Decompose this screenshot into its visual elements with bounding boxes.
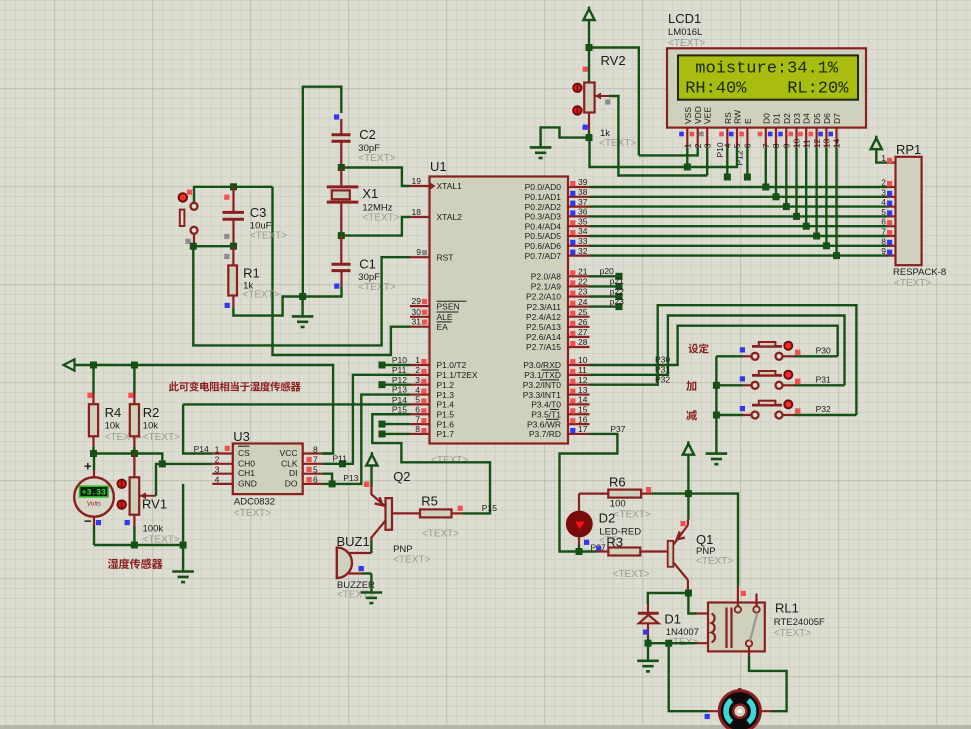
svg-text:<TEXT>: <TEXT>	[613, 569, 650, 580]
wire ADC GND riser and ground	[182, 484, 184, 571]
svg-text:CS: CS	[238, 448, 250, 458]
svg-text:D1: D1	[772, 113, 782, 124]
wire junction to XTAL2 pin	[341, 217, 410, 236]
svg-text:P2.1/A9: P2.1/A9	[531, 282, 562, 292]
ground symbol below buzzer	[361, 593, 383, 604]
svg-text:16: 16	[578, 414, 588, 424]
wire P0.0-P0.7 data bus rows from U1 to RP1	[590, 187, 888, 256]
label SET (Chinese)	[688, 343, 708, 353]
svg-text:Q2: Q2	[393, 469, 410, 484]
svg-text:<TEXT>: <TEXT>	[431, 455, 468, 466]
svg-text:U3: U3	[233, 429, 250, 444]
svg-text:CH1: CH1	[238, 468, 255, 478]
svg-text:P3.5/T1: P3.5/T1	[531, 409, 561, 419]
svg-text:27: 27	[578, 327, 588, 337]
svg-text:RV2: RV2	[601, 53, 626, 68]
wire LCD VSS rail (pin1+pin5 RW) to RV2 bottom junction	[589, 138, 737, 167]
svg-text:P2.0/A8: P2.0/A8	[531, 272, 562, 282]
svg-text:P1.3: P1.3	[437, 390, 455, 400]
svg-text:9: 9	[881, 246, 886, 256]
wire LCD RS pin4 to terminal P10	[726, 148, 728, 177]
node junction C1/ground/riser	[299, 293, 306, 300]
svg-text:21: 21	[578, 267, 588, 277]
svg-text:6: 6	[415, 404, 420, 414]
LCD screen with moisture readout	[678, 55, 858, 99]
svg-text:XTAL1: XTAL1	[437, 181, 463, 191]
annotation: variable resistor acts as humidity sensor	[169, 381, 301, 391]
svg-text:P13: P13	[392, 385, 407, 395]
wire P3.2 to MINUS button (net P32)	[590, 305, 857, 415]
wire C1C2 ground riser (C2 top loop)	[303, 87, 342, 297]
svg-text:ALE: ALE	[437, 312, 453, 322]
svg-text:P1.7: P1.7	[437, 429, 455, 439]
svg-text:+3.33: +3.33	[82, 489, 106, 498]
svg-text:P13: P13	[343, 473, 358, 483]
svg-text:P2.3/A11: P2.3/A11	[527, 302, 562, 312]
svg-text:P0.6/AD6: P0.6/AD6	[525, 241, 562, 251]
svg-text:7: 7	[415, 414, 420, 424]
svg-text:P31: P31	[816, 374, 831, 384]
crystal X1	[327, 168, 359, 235]
svg-text:P10: P10	[715, 142, 725, 157]
svg-text:8: 8	[881, 236, 886, 246]
svg-text:ADC0832: ADC0832	[234, 497, 275, 508]
wire divider row R4-R2-CH0	[94, 454, 163, 464]
svg-text:R1: R1	[243, 266, 260, 281]
svg-text:1: 1	[415, 355, 420, 365]
svg-text:X1: X1	[362, 186, 378, 201]
svg-text:<TEXT>: <TEXT>	[143, 432, 180, 443]
wire ADC CLK to P1.1 (net P11)	[322, 375, 410, 464]
svg-text:2: 2	[881, 178, 886, 188]
svg-text:RST: RST	[437, 252, 454, 262]
svg-text:p21: p21	[610, 276, 624, 286]
svg-text:23: 23	[578, 287, 588, 297]
node junction R2 bottom / RV1 top	[131, 450, 138, 457]
diode D1 (1N4007)	[638, 604, 659, 644]
svg-text:P11: P11	[392, 365, 407, 375]
wire RV2 bottom to VSS rail junction	[588, 131, 590, 138]
ADC U3 (ADC0832) body	[233, 444, 303, 495]
svg-text:15: 15	[578, 404, 588, 414]
node junction C3 bottom / switch bottom / R1 top	[230, 243, 237, 250]
svg-text:RS: RS	[723, 112, 733, 124]
wire P1.6 stub with terminal	[382, 423, 410, 425]
svg-text:XTAL2: XTAL2	[437, 212, 463, 222]
potentiometer RV1	[117, 454, 156, 546]
svg-text:R2: R2	[143, 405, 160, 420]
svg-text:P10: P10	[392, 355, 407, 365]
svg-text:C1: C1	[359, 257, 376, 272]
svg-text:<TEXT>: <TEXT>	[422, 529, 459, 540]
svg-text:17: 17	[578, 424, 588, 434]
svg-text:E: E	[743, 118, 753, 124]
svg-text:13: 13	[822, 138, 832, 148]
resistor R3	[579, 548, 668, 556]
svg-text:1: 1	[683, 143, 693, 148]
svg-text:P2.6/A14: P2.6/A14	[526, 332, 561, 342]
wire ADC DI drop to DO net	[322, 474, 332, 484]
label MINUS (Chinese)	[686, 410, 697, 421]
svg-text:<TEXT>: <TEXT>	[894, 278, 931, 289]
ground symbol below C1	[292, 316, 314, 327]
svg-text:P0.2/AD2: P0.2/AD2	[525, 202, 562, 212]
svg-text:12: 12	[812, 138, 822, 148]
svg-text:D4: D4	[802, 113, 812, 124]
wire P3.0 to SET button (net P30)	[590, 326, 838, 365]
svg-text:P15: P15	[482, 503, 497, 513]
svg-text:4: 4	[215, 475, 220, 485]
svg-text:RP1: RP1	[896, 142, 921, 157]
svg-text:19: 19	[412, 176, 422, 186]
capacitor C1	[332, 236, 351, 289]
svg-text:RW: RW	[733, 110, 743, 124]
svg-text:8: 8	[415, 424, 420, 434]
node junction CH0 tap	[159, 460, 166, 467]
LCD LCD1 body	[667, 48, 866, 127]
svg-text:P2.4/A12: P2.4/A12	[526, 312, 561, 322]
node junction bottom net to ground riser	[180, 542, 187, 549]
svg-text:R3: R3	[606, 535, 623, 550]
svg-text:P11: P11	[333, 454, 348, 464]
svg-text:6: 6	[881, 217, 886, 227]
node junction RV2 bottom / VSS rail / ground jog	[586, 134, 593, 141]
svg-text:<TEXT>: <TEXT>	[242, 290, 279, 301]
svg-text:5: 5	[732, 143, 742, 148]
svg-text:7: 7	[881, 227, 886, 237]
wire R1 bottom jog to C1/ground junction	[233, 297, 302, 316]
svg-text:P37: P37	[610, 424, 625, 434]
svg-text:35: 35	[578, 216, 588, 226]
wires LCD D0-D7 drops onto bus with junctions	[762, 148, 840, 260]
svg-text:100k: 100k	[143, 524, 164, 535]
svg-text:<TEXT>: <TEXT>	[358, 282, 395, 293]
node junction D2 bottom / P37 / R3	[576, 548, 583, 555]
U3 pin stubs numbers and names	[212, 444, 322, 488]
wire ADC DO to P1.3 (net P13)	[322, 395, 410, 484]
svg-text:<TEXT>: <TEXT>	[774, 628, 811, 639]
resistor pack RP1 body	[896, 157, 922, 265]
resistor R5	[420, 506, 463, 518]
wire P1.0 stub with terminal	[382, 364, 410, 366]
svg-text:1: 1	[881, 153, 886, 163]
svg-text:D0: D0	[761, 113, 771, 124]
node junction RV1 bottom at bottom net	[131, 542, 138, 549]
wire sensor supply rail to ADC VCC	[75, 365, 334, 454]
svg-text:2: 2	[693, 143, 703, 148]
push button SET 设定	[716, 342, 837, 360]
svg-text:D5: D5	[812, 113, 822, 124]
node junction motor branch	[665, 640, 672, 647]
svg-text:PNP: PNP	[393, 544, 413, 555]
svg-text:D6: D6	[822, 113, 832, 124]
svg-text:7: 7	[313, 455, 318, 465]
resistor R6	[579, 487, 688, 498]
power symbol VCC (top, feeds RV2/VDD)	[583, 7, 594, 21]
wire P1.5 route to R5 (net P15)	[372, 414, 490, 513]
wire VCC arrow stem down to junction	[588, 20, 590, 48]
svg-text:Volts: Volts	[87, 501, 102, 508]
svg-text:P0.5/AD5: P0.5/AD5	[525, 231, 562, 241]
svg-text:LCD1: LCD1	[668, 11, 701, 26]
svg-text:11: 11	[801, 139, 811, 148]
wire switch bottom down to RST rail	[193, 246, 410, 345]
svg-text:5: 5	[415, 395, 420, 405]
svg-text:33: 33	[578, 236, 588, 246]
svg-text:BUZ1: BUZ1	[337, 534, 370, 549]
svg-text:11: 11	[578, 365, 587, 375]
wire junction to XTAL1 pin	[341, 168, 410, 187]
svg-text:RV1: RV1	[142, 497, 167, 512]
buzzer BUZ1	[337, 548, 372, 578]
svg-text:28: 28	[578, 337, 588, 347]
LCD pin stubs 1-14 with state squares and pin numbers	[679, 128, 842, 149]
svg-text:18: 18	[412, 207, 422, 217]
svg-text:P2.7/A15: P2.7/A15	[526, 342, 561, 352]
wire buzzer to ground	[370, 574, 372, 593]
svg-text:P2.2/A10: P2.2/A10	[526, 292, 561, 302]
wire P3.7 route to D2/R3 (net P37)	[560, 434, 618, 552]
svg-text:<TEXT>: <TEXT>	[234, 508, 271, 519]
wire LCD VEE pin3 down to contrast rail	[706, 148, 708, 176]
wire power arrow to Q2 emitter	[370, 466, 372, 488]
svg-text:4: 4	[881, 197, 886, 207]
capacitor C3	[223, 187, 245, 244]
node junction C2/X1/XTAL1	[338, 164, 345, 171]
terminal arrow (left rail)	[64, 359, 75, 370]
resistor R1	[224, 246, 237, 308]
svg-text:38: 38	[578, 187, 588, 197]
svg-text:5: 5	[881, 207, 886, 217]
resistor R2	[128, 365, 139, 454]
svg-text:P0.1/AD1: P0.1/AD1	[525, 192, 562, 202]
svg-text:PSEN: PSEN	[437, 301, 460, 311]
svg-text:D1: D1	[664, 612, 681, 627]
svg-text:D7: D7	[832, 113, 842, 124]
svg-text:6: 6	[313, 475, 318, 485]
node junction D1 anode / ground / motor return	[645, 640, 652, 647]
wire P1.2 stub with terminal	[382, 384, 410, 386]
wire button common vertical to ground	[715, 356, 717, 453]
svg-text:24: 24	[578, 297, 588, 307]
wire Q2 collector to buzzer	[370, 541, 372, 553]
svg-text:<TEXT>: <TEXT>	[250, 231, 287, 242]
svg-text:1: 1	[215, 444, 220, 454]
svg-text:P0.3/AD3: P0.3/AD3	[525, 212, 562, 222]
svg-text:31: 31	[412, 317, 422, 327]
svg-text:p20: p20	[600, 266, 614, 276]
svg-text:D2: D2	[782, 113, 792, 124]
svg-text:P0.7/AD7: P0.7/AD7	[525, 251, 562, 261]
relay RL1 body and coil	[697, 586, 765, 656]
wires P2.0-P2.3 stubs with terminals (nets p20-p23)	[590, 273, 623, 310]
svg-text:CLK: CLK	[281, 458, 298, 468]
svg-text:34: 34	[578, 226, 588, 236]
ground symbol below RV1 area	[172, 572, 194, 583]
svg-text:DO: DO	[285, 478, 298, 488]
node junction X1/C1/XTAL2	[338, 232, 345, 239]
svg-text:R5: R5	[421, 494, 438, 509]
svg-text:p22: p22	[610, 286, 624, 296]
svg-text:12: 12	[578, 375, 588, 385]
svg-text:C3: C3	[250, 205, 267, 220]
svg-text:P1.2: P1.2	[437, 380, 455, 390]
wire D1 junction to ground	[647, 643, 649, 660]
svg-text:2: 2	[215, 455, 220, 465]
svg-text:P3.4/T0: P3.4/T0	[531, 400, 561, 410]
node junction switch bottom	[190, 243, 197, 250]
svg-text:2: 2	[415, 365, 420, 375]
svg-text:EA: EA	[437, 322, 449, 332]
svg-text:P3.7/RD: P3.7/RD	[529, 429, 561, 439]
svg-text:P3.2/INT0: P3.2/INT0	[523, 380, 562, 390]
wire RV2 wiper to LCD VEE rail	[609, 96, 707, 176]
svg-text:37: 37	[578, 197, 588, 207]
wire bottom net voltmeter- / RV1 bottom / ADC GND	[94, 544, 183, 546]
wire VCC junction right and down to LCD VDD rail riser	[589, 48, 639, 156]
svg-text:30: 30	[412, 307, 422, 317]
svg-text:8: 8	[313, 444, 318, 454]
svg-text:D3: D3	[792, 113, 802, 124]
svg-text:P1.6: P1.6	[437, 419, 455, 429]
power symbol for RP1 pin1	[871, 136, 882, 150]
svg-text:3: 3	[881, 187, 886, 197]
svg-text:<TEXT>: <TEXT>	[614, 510, 651, 521]
svg-text:P1.1/T2EX: P1.1/T2EX	[437, 370, 478, 380]
label PLUS (Chinese)	[686, 381, 696, 391]
wire junction down to ground	[301, 297, 303, 317]
svg-text:P1.5: P1.5	[437, 409, 455, 419]
label humidity sensor (Chinese)	[108, 558, 163, 569]
node junction R4 top	[90, 362, 97, 369]
svg-text:36: 36	[578, 207, 588, 217]
svg-text:14: 14	[578, 395, 588, 405]
svg-text:29: 29	[412, 296, 422, 306]
ground symbol near RV2	[530, 147, 552, 158]
voltmeter (+3.33 Volts)	[74, 454, 114, 546]
svg-text:6: 6	[743, 143, 753, 148]
svg-text:U1: U1	[430, 159, 447, 174]
node junction R4 bottom	[90, 450, 97, 457]
svg-text:<TEXT>: <TEXT>	[362, 213, 399, 224]
microcontroller U1 (8051) body	[430, 177, 569, 444]
svg-text:P0.0/AD0: P0.0/AD0	[525, 182, 562, 192]
wire LCD E pin6 to terminal P12	[746, 148, 748, 177]
svg-text:DI: DI	[289, 468, 298, 478]
svg-text:10k: 10k	[105, 421, 121, 432]
wire P1.4 long rail to ADC CS	[183, 403, 410, 405]
svg-text:P30: P30	[816, 345, 831, 355]
wire RP1 pin1 to power arrow	[876, 149, 887, 163]
svg-text:100: 100	[610, 499, 626, 510]
motor	[708, 689, 771, 729]
svg-text:P3.1/TXD: P3.1/TXD	[524, 370, 561, 380]
potentiometer RV2	[573, 48, 610, 132]
wire C1 bottom to ground junction	[303, 286, 342, 296]
svg-text:26: 26	[578, 317, 588, 327]
wire junction down to relay coil pin 1	[688, 593, 696, 614]
LED D2 (LED-RED)	[566, 494, 592, 552]
push switch (reset) with actuator	[179, 190, 198, 244]
node junction VSS pin1	[684, 164, 691, 171]
LCD pin names (vertical)	[683, 106, 842, 124]
resistor R4	[87, 365, 98, 454]
svg-text:moisture:34.1%: moisture:34.1%	[695, 59, 839, 78]
svg-text:VDD: VDD	[693, 106, 703, 124]
svg-text:14: 14	[832, 138, 842, 148]
svg-text:3: 3	[415, 375, 420, 385]
svg-text:P1.4: P1.4	[437, 400, 455, 410]
capacitor C2	[332, 114, 351, 166]
svg-text:GND: GND	[238, 478, 257, 488]
transistor Q2 (PNP)	[371, 486, 420, 542]
svg-text:CH0: CH0	[238, 458, 255, 468]
svg-text:R4: R4	[105, 405, 122, 420]
wire LCD VDD pin2 to VCC riser	[639, 148, 698, 156]
wire CH0 tap to ADC CH0 pin	[156, 464, 212, 496]
power symbol for Q1/R6 rail	[683, 441, 694, 455]
svg-text:+: +	[84, 459, 92, 474]
svg-text:RL1: RL1	[775, 601, 799, 616]
ground symbol below D1	[637, 661, 659, 672]
svg-text:P12: P12	[392, 375, 407, 385]
power symbol for Q2 emitter	[366, 452, 377, 466]
svg-text:Q1: Q1	[696, 532, 713, 547]
svg-text:9: 9	[782, 143, 792, 148]
svg-text:VSS: VSS	[683, 107, 693, 124]
svg-text:P3.0/RXD: P3.0/RXD	[523, 360, 561, 370]
svg-text:−: −	[84, 514, 92, 529]
svg-text:RH:40% RL:20%: RH:40% RL:20%	[685, 80, 849, 99]
svg-text:P3.3/INT1: P3.3/INT1	[523, 390, 562, 400]
transistor Q1 (PNP)	[668, 520, 688, 590]
svg-text:10k: 10k	[143, 421, 159, 432]
svg-text:P14: P14	[194, 444, 209, 454]
svg-text:RESPACK-8: RESPACK-8	[893, 267, 946, 278]
svg-text:LM016L: LM016L	[668, 27, 702, 38]
svg-text:VCC: VCC	[280, 448, 298, 458]
svg-text:<TEXT>: <TEXT>	[393, 555, 430, 566]
svg-text:C2: C2	[359, 127, 376, 142]
svg-text:32: 32	[578, 246, 588, 256]
wire ADC VCC to sensor rail riser	[322, 452, 332, 454]
svg-text:P3.6/WR: P3.6/WR	[527, 419, 561, 429]
svg-text:P32: P32	[655, 375, 670, 385]
svg-text:39: 39	[578, 177, 588, 187]
push button MINUS 减	[716, 400, 856, 418]
push button PLUS 加	[716, 371, 844, 389]
node junction Q1 collector / D1 / relay coil	[685, 590, 692, 597]
wire EA loop: right side vertical down and across to EA pin	[273, 187, 411, 355]
svg-text:8: 8	[771, 143, 781, 148]
svg-text:9: 9	[416, 247, 421, 257]
svg-text:P2.5/A13: P2.5/A13	[526, 322, 561, 332]
svg-text:<TEXT>: <TEXT>	[358, 153, 395, 164]
wire reset top rail (switch top / C3 top / EA loop)	[194, 187, 273, 203]
wire P3.1 to PLUS button (net P31)	[590, 316, 845, 386]
wire power arrow down to R6 junction and Q1 emitter	[687, 455, 689, 494]
svg-text:10: 10	[578, 355, 588, 365]
svg-text:7: 7	[761, 143, 771, 148]
ground symbol below buttons	[706, 454, 728, 465]
wire junction to relay contact	[688, 494, 738, 586]
node junction VCC/RV2 top	[586, 44, 593, 51]
svg-text:R6: R6	[609, 475, 626, 490]
svg-text:3: 3	[215, 465, 220, 475]
wire ground jog from RV2 bottom junction	[541, 127, 589, 147]
svg-text:P32: P32	[816, 404, 831, 414]
svg-text:5: 5	[313, 465, 318, 475]
